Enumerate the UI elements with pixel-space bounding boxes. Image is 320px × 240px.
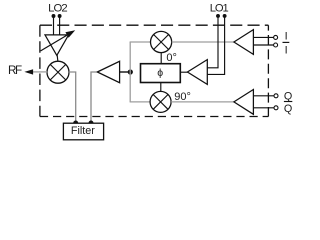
RF mixer (LO2 upconverter) — [47, 61, 69, 83]
svg-text:90°: 90° — [174, 91, 191, 103]
port Q- — [274, 106, 278, 110]
phase splitter box — [141, 64, 181, 83]
wire phi to I mixer LO port — [160, 53, 162, 64]
VGA amplifier (LO2 buffer, variable) — [45, 35, 69, 56]
IC boundary dashed box — [40, 25, 269, 116]
wire LO1+ to amp — [207, 16, 218, 68]
wire Q amp to Q mixer (gray) — [171, 101, 234, 103]
svg-text:LO2: LO2 — [48, 3, 67, 15]
IF amp A (drives filter) — [97, 61, 119, 82]
wire LO1- to amp — [207, 16, 224, 75]
wire to I mixer (gray) — [130, 41, 151, 43]
Q mixer — [150, 91, 171, 112]
wire LO2+ to VGA — [53, 16, 55, 35]
svg-text:ϕ: ϕ — [157, 67, 163, 79]
svg-text:Q: Q — [284, 103, 292, 115]
wire Q+ port — [253, 95, 274, 97]
I mixer — [151, 31, 172, 52]
svg-text:I: I — [285, 30, 288, 42]
port I+ — [274, 35, 278, 39]
wire phi to Q mixer LO port — [160, 83, 162, 92]
external filter box — [63, 123, 103, 140]
port I- — [274, 43, 278, 47]
wire IF amp input stub to junction — [119, 71, 129, 73]
LO1 buffer amp — [187, 60, 207, 85]
wire I- port — [253, 44, 273, 46]
pin LO1- — [223, 14, 227, 18]
wire I+ port — [253, 36, 273, 38]
svg-text:RF: RF — [8, 64, 22, 77]
pin LO2- — [58, 14, 62, 18]
port Q+ — [274, 94, 278, 98]
RF output arrowhead — [24, 69, 33, 74]
wire RF mixer to filter (gray) — [69, 72, 76, 122]
pin LO2+ — [52, 14, 56, 18]
svg-text:LO1: LO1 — [210, 2, 229, 14]
svg-text:0°: 0° — [166, 52, 177, 64]
wire to Q mixer (gray) — [130, 101, 151, 103]
Q input amp — [234, 90, 254, 115]
filter pin 1 — [73, 121, 78, 126]
summing wire vertical (gray) — [129, 42, 131, 102]
svg-text:I: I — [285, 45, 288, 57]
I input amp — [234, 30, 254, 55]
wire Q- port — [253, 107, 274, 109]
wire I amp to I mixer (gray) — [172, 41, 235, 43]
svg-text:Filter: Filter — [71, 125, 95, 137]
svg-text:Q: Q — [284, 90, 292, 102]
junction node dot — [128, 69, 133, 74]
filter pin 2 — [89, 121, 94, 126]
wire VGA to RF mixer — [56, 55, 59, 61]
wire LO2- to VGA — [59, 16, 61, 35]
wire phi to LO1 amp — [180, 71, 187, 73]
RF output wire — [33, 71, 47, 73]
wire filter to IF amp (gray) — [91, 72, 96, 122]
pin LO1+ — [216, 14, 220, 18]
VGA gain arrow — [41, 34, 69, 51]
